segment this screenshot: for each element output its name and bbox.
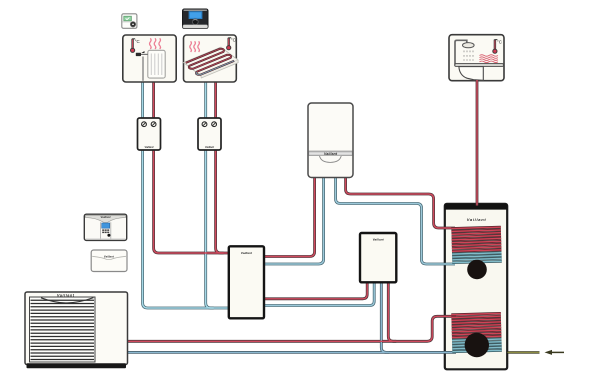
svg-text:Vaillant: Vaillant <box>205 145 214 149</box>
svg-text:Vaillant: Vaillant <box>324 152 338 156</box>
svg-text:Vaillant: Vaillant <box>241 251 253 255</box>
svg-text:Vaillant: Vaillant <box>467 217 487 222</box>
svg-text:°C: °C <box>497 40 502 45</box>
svg-text:Vaillant: Vaillant <box>104 254 115 258</box>
svg-text:°C: °C <box>231 38 236 43</box>
svg-text:Vaillant: Vaillant <box>373 238 385 242</box>
svg-text:Vaillant: Vaillant <box>57 293 75 297</box>
svg-text:Vaillant: Vaillant <box>101 215 111 219</box>
svg-text:°C: °C <box>135 39 140 44</box>
svg-text:Vaillant: Vaillant <box>145 145 154 149</box>
